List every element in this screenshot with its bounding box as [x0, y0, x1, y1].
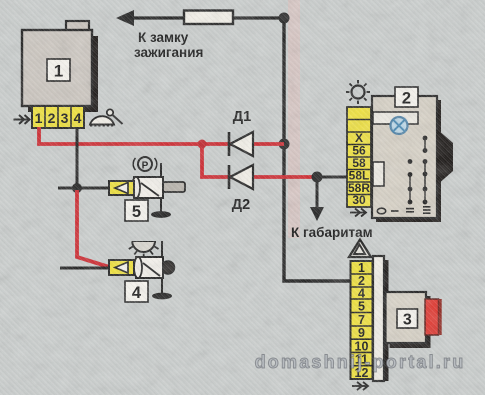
- body: [136, 257, 163, 278]
- label 4: [125, 281, 148, 302]
- handbrake switch 5: [109, 157, 185, 218]
- hazard switch box 3: [386, 292, 427, 343]
- node: top junction: [279, 13, 290, 24]
- position marks row: [377, 207, 430, 214]
- diode D2: [229, 165, 253, 189]
- light switch box 2 shadow: [376, 100, 441, 222]
- interior lamp symbol (dome): [90, 109, 123, 126]
- pin line + ground: [160, 163, 162, 213]
- connector plate of box 3: [384, 260, 389, 381]
- knob wedge: [437, 129, 453, 185]
- pin line + ground: [161, 241, 163, 294]
- yellow connector of switch 5: [109, 181, 134, 195]
- relay box 1 shadow: [28, 36, 98, 112]
- contact column B: [423, 136, 428, 205]
- arrow to ignition switch: [116, 10, 134, 26]
- label 2: [395, 87, 418, 107]
- wire: red down to switch 4: [77, 190, 110, 267]
- parking light symbol (sun): [346, 80, 370, 104]
- connector arrow marker under X3: [352, 382, 368, 390]
- bulb ball: [162, 261, 175, 274]
- hazard triangle symbol: [349, 240, 371, 258]
- label 3: [397, 309, 418, 328]
- wire: red branch to diode D2: [202, 144, 317, 177]
- node: bus/diode1 junction: [279, 139, 290, 150]
- plunger: [163, 182, 185, 192]
- wire: black from pin4 down: [76, 127, 79, 188]
- svg-text:domashnij-portal.ru: domashnij-portal.ru: [255, 352, 466, 372]
- contact column A: [408, 159, 413, 204]
- wire: main vertical bus: [284, 18, 350, 281]
- body: [134, 177, 163, 198]
- hazard switch box 3 shadow: [390, 296, 431, 348]
- label 5: [125, 200, 148, 221]
- wire: black to switch 5: [58, 187, 109, 190]
- side bracket on pins 58/58L: [373, 162, 384, 186]
- wire+arrow to marker lights: [316, 177, 319, 210]
- label 1: [47, 59, 70, 81]
- light rays icon: [132, 241, 157, 243]
- wire: black stub to switch 4: [60, 267, 109, 270]
- (P) symbol: [138, 157, 152, 171]
- instrument lamp (blue): [391, 117, 408, 134]
- connector X2 of box 2: [347, 107, 371, 207]
- wire: red from pin1 to diodes: [39, 127, 284, 144]
- yellow connector of switch 4: [109, 260, 134, 275]
- wire: black to pin 58L: [317, 176, 350, 179]
- wire: top feed line to ignition: [120, 16, 284, 19]
- light switch box 2: [372, 96, 437, 218]
- connector X3 pins 1-12: [351, 261, 373, 380]
- relay box 1 tab: [66, 21, 89, 31]
- courtesy light switch 4: [109, 241, 175, 299]
- diode D1: [229, 132, 253, 156]
- red button of box 3: [425, 299, 439, 335]
- inner slot: [373, 112, 418, 124]
- connector arrow marker under X2: [350, 209, 366, 217]
- connector arrow marker left of X1: [14, 115, 30, 124]
- node: red junction: [198, 140, 207, 149]
- connector X1 of box1 (pins 1-4): [32, 106, 84, 128]
- fuse F: [184, 11, 233, 25]
- scan artifact pink stripe: [288, 0, 300, 238]
- relay box 1: [22, 30, 92, 106]
- node: junction to marker lights: [312, 172, 323, 183]
- node: junction at switch 5: [72, 183, 82, 193]
